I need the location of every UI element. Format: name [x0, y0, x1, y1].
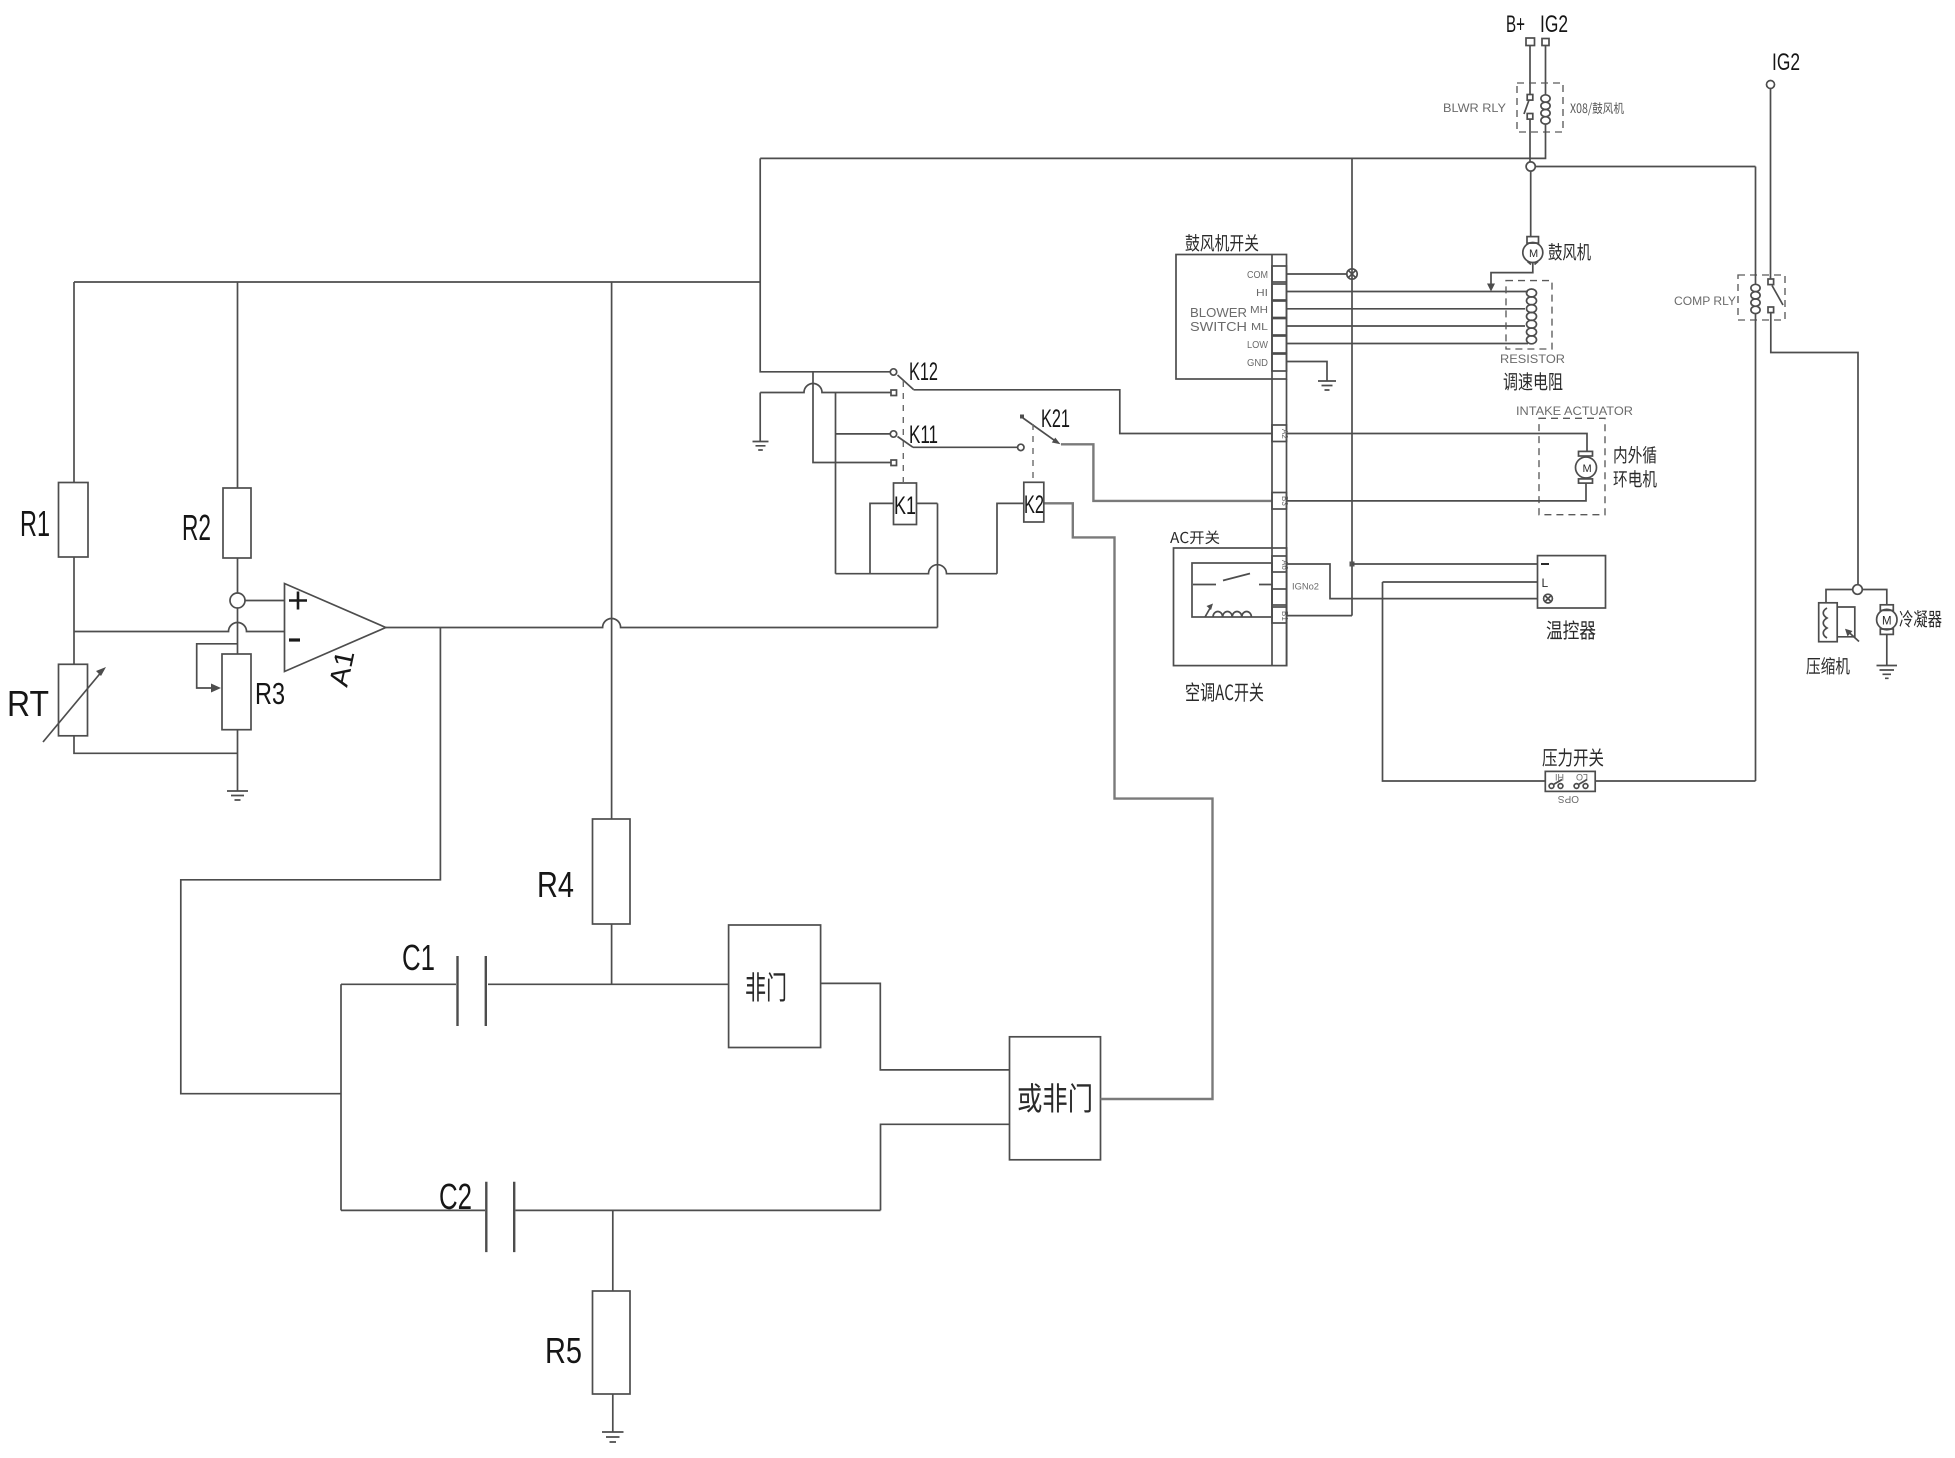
- strip pin A2: [1272, 425, 1287, 442]
- speed resistor coil: [1527, 289, 1537, 297]
- wire ML to resistor: [1287, 325, 1526, 327]
- mechanical link K21 K2: [1032, 424, 1034, 482]
- wire node to R3: [237, 608, 239, 654]
- wire NOT gate output: [821, 983, 1010, 1070]
- wire R1 bottom: [73, 557, 75, 664]
- thermistor RT: [59, 664, 88, 736]
- strip pin B1: [1272, 607, 1287, 623]
- wire RT bottom to R3 bottom: [74, 736, 238, 754]
- node junction circle: [230, 593, 245, 608]
- wire inverting input: [74, 623, 285, 632]
- wire junction to condenser: [1862, 590, 1887, 605]
- AC switch coil: [1205, 607, 1211, 618]
- svg-text:K12: K12: [909, 358, 938, 386]
- wire rail to comp coil: [1755, 167, 1757, 285]
- ground below R3: [227, 791, 248, 800]
- condenser motor: [1880, 605, 1893, 611]
- pin MH: [1272, 301, 1287, 318]
- wire ground to K12: [760, 384, 891, 393]
- wire IG2 to comp switch: [1770, 89, 1772, 280]
- comp relay coil: [1751, 284, 1760, 291]
- svg-text:ML: ML: [1251, 322, 1269, 333]
- svg-text:M: M: [1529, 248, 1538, 260]
- svg-text:M: M: [1583, 463, 1592, 475]
- wire coil bottom to rail: [1531, 124, 1546, 158]
- svg-text:R1: R1: [20, 503, 50, 544]
- svg-text:R5: R5: [545, 1330, 582, 1371]
- svg-text:A6: A6: [1280, 560, 1289, 570]
- svg-text:COMP RLY: COMP RLY: [1674, 294, 1736, 308]
- svg-text:RT: RT: [7, 683, 49, 724]
- AC switch outer box: [1174, 548, 1287, 666]
- svg-text:K2: K2: [1024, 491, 1044, 519]
- svg-text:BLWR RLY: BLWR RLY: [1443, 101, 1506, 115]
- wire K12 output to intake pin: [914, 390, 1273, 434]
- AC switch contact: [1193, 574, 1272, 585]
- wire K21 output to intake lower: [1061, 444, 1272, 501]
- resistor RESISTOR dashed box: [1506, 281, 1552, 349]
- wire pressure switch to comp coil: [1595, 780, 1755, 782]
- wire R2 bottom: [237, 558, 239, 593]
- wire COM to junction: [1287, 273, 1348, 275]
- strip pin A6: [1272, 556, 1287, 572]
- wire noninverting input: [245, 600, 285, 602]
- svg-text:K11: K11: [909, 421, 938, 449]
- junction circle compressor: [1853, 585, 1863, 595]
- wire B plus feed down: [760, 158, 890, 371]
- ground below R5: [602, 1432, 624, 1442]
- op-amp A1: [285, 584, 386, 672]
- potentiometer R3: [222, 654, 251, 730]
- svg-text:MH: MH: [1250, 305, 1268, 316]
- svg-text:RESISTOR: RESISTOR: [1500, 352, 1565, 366]
- wire C2 to R5: [612, 1210, 614, 1291]
- wire LOW to resistor: [1287, 343, 1529, 345]
- svg-text:COM: COM: [1247, 270, 1268, 281]
- relay coil K2: [1024, 482, 1044, 522]
- wire IG2 coil down: [1545, 46, 1547, 96]
- svg-text:R3: R3: [255, 676, 285, 711]
- svg-text:IGNo2: IGNo2: [1292, 582, 1319, 592]
- wire intake motor lower: [1287, 483, 1587, 501]
- wire K11 output to K21: [913, 446, 1018, 448]
- pin ML: [1272, 319, 1287, 336]
- svg-text:R2: R2: [182, 507, 211, 548]
- wire junction down to motor: [1530, 171, 1532, 237]
- relay BLWR RLY dashed box: [1517, 83, 1563, 132]
- relay BLWR coil: [1541, 95, 1550, 102]
- wire junction to compressor: [1826, 590, 1853, 603]
- relay coil K1: [894, 483, 917, 525]
- svg-text:GND: GND: [1247, 358, 1268, 369]
- wire junction right to comp relay: [1535, 166, 1755, 168]
- capacitor C2: [341, 1209, 881, 1211]
- capacitor C1: [341, 983, 729, 985]
- wire switch bottom to junction: [1529, 119, 1531, 162]
- svg-text:IG2: IG2: [1772, 49, 1800, 76]
- resistor R2: [223, 488, 251, 558]
- pin GND: [1272, 354, 1287, 371]
- wire K1 right: [917, 502, 938, 504]
- wire op-amp output: [386, 619, 938, 628]
- svg-text:B+: B+: [1506, 11, 1525, 38]
- resistor R4: [593, 819, 631, 924]
- compressor clutch: [1819, 603, 1838, 642]
- svg-text:R4: R4: [537, 864, 574, 905]
- svg-text:C1: C1: [402, 937, 435, 978]
- wire junction square to thermostat minus: [1352, 563, 1538, 565]
- svg-text:LOW: LOW: [1247, 340, 1269, 351]
- wire COM feed vertical: [1351, 158, 1353, 615]
- ground below GND pin: [1318, 381, 1336, 390]
- switch K11: [836, 433, 891, 435]
- comp relay switch: [1768, 279, 1774, 285]
- pressure switch OPS: [1542, 748, 1603, 766]
- wire K1 left: [870, 503, 894, 573]
- wire comp switch to compressor junction: [1771, 313, 1858, 585]
- wire R1 top: [73, 282, 75, 483]
- wire ground branch vertical: [835, 393, 837, 574]
- svg-text:L: L: [1542, 576, 1549, 590]
- wire B plus branch to K11: [813, 372, 891, 463]
- ground below condenser: [1877, 666, 1898, 679]
- resistor R1: [59, 483, 89, 558]
- blower switch box: [1176, 255, 1287, 380]
- intake actuator dashed box: [1539, 418, 1605, 514]
- wire rail to R4: [611, 282, 613, 819]
- NOT gate box: [729, 925, 821, 1048]
- pin COM: [1272, 266, 1287, 282]
- wire MH to resistor: [1287, 308, 1526, 310]
- strip pin B5: [1272, 589, 1287, 605]
- wire C1 C2 left column: [340, 984, 342, 1210]
- connector strip column: [1271, 379, 1273, 666]
- mechanical link K12 K11 K1: [902, 381, 904, 484]
- blower motor: [1527, 237, 1539, 244]
- wire top rail left section: [74, 281, 760, 283]
- svg-text:SWITCH: SWITCH: [1190, 319, 1247, 334]
- svg-text:OPS: OPS: [1558, 793, 1579, 804]
- wire top rail from feed corner to relay: [760, 157, 1531, 159]
- pin LOW: [1272, 336, 1287, 353]
- wire ground rail: [836, 565, 998, 574]
- wire B plus down: [1529, 46, 1531, 96]
- svg-text:K21: K21: [1041, 405, 1070, 433]
- wire K2 left to ground rail: [997, 503, 1024, 573]
- wire HI to resistor: [1287, 291, 1529, 293]
- wire feedback loop to timer: [181, 628, 441, 1094]
- NOR gate box: [1010, 1037, 1101, 1160]
- svg-text:BLOWER: BLOWER: [1190, 305, 1247, 320]
- wire GND pin to ground: [1287, 362, 1328, 382]
- svg-text:C2: C2: [439, 1176, 472, 1217]
- wire NOR output to K2: [1044, 503, 1213, 1099]
- svg-text:INTAKE ACTUATOR: INTAKE ACTUATOR: [1516, 404, 1633, 418]
- switch K21: [1018, 444, 1024, 450]
- intake motor: [1579, 451, 1593, 456]
- wire thermostat L down to pressure switch: [1383, 581, 1538, 583]
- wire comp coil to pressure switch: [1755, 314, 1757, 781]
- wire R5 bottom: [612, 1394, 614, 1432]
- wire R3 bottom to ground: [237, 730, 239, 791]
- svg-text:K1: K1: [894, 492, 916, 520]
- thermostat box: [1538, 556, 1606, 608]
- junction square on COM vertical: [1350, 562, 1355, 567]
- wire motor to HI node: [1491, 263, 1533, 287]
- svg-text:IG2: IG2: [1540, 11, 1568, 38]
- relay BLWR switch: [1527, 95, 1533, 101]
- switch K12: [890, 369, 896, 375]
- wire pin to intake motor: [1287, 434, 1588, 452]
- pin HI: [1272, 284, 1287, 300]
- strip pin B3: [1272, 493, 1287, 510]
- wire R4 bottom: [611, 924, 613, 984]
- wire R2 top: [237, 282, 239, 488]
- wire output to K1 coil: [937, 503, 939, 627]
- junction circle below relay: [1526, 162, 1535, 171]
- resistor R5: [593, 1291, 631, 1394]
- wire AC pin to thermostat plus: [1287, 564, 1538, 599]
- wire AC coil pin to COM vertical: [1287, 615, 1353, 617]
- svg-text:M: M: [1882, 616, 1892, 628]
- AC switch inner box: [1192, 563, 1272, 617]
- svg-text:HI: HI: [1256, 288, 1268, 299]
- wire NOR input 2 from C2: [881, 1124, 1010, 1210]
- ground symbol left of K12: [759, 393, 761, 442]
- junction crossed circle: [1347, 269, 1357, 279]
